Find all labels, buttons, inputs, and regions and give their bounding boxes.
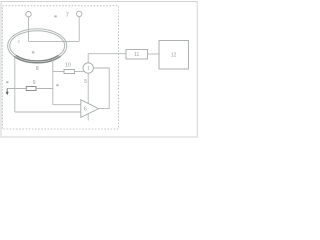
svg-text:6: 6 — [84, 107, 87, 113]
amplifier 6 — [81, 100, 99, 118]
mark near label 7 — [54, 15, 57, 17]
resistor 10 — [64, 70, 75, 74]
svg-text:12: 12 — [171, 52, 177, 58]
wire block 11 to block 12 — [148, 53, 160, 55]
svg-text:4: 4 — [17, 39, 20, 44]
mark right of cell wire — [56, 84, 59, 86]
cell 8 left side wire — [14, 57, 16, 112]
coil 4 darker bottom arc outer — [14, 56, 60, 62]
coil 4 darker bottom arc inner — [16, 55, 58, 61]
wire from mixer top corner to block 11 — [88, 53, 126, 55]
block 11 — [126, 50, 148, 60]
resistor 9 — [26, 87, 36, 91]
svg-text:9: 9 — [33, 80, 36, 86]
svg-text:5: 5 — [84, 79, 87, 85]
wire left of resistor 10 — [53, 71, 64, 73]
svg-text:10: 10 — [65, 62, 71, 68]
cell 8 right side wire — [52, 60, 54, 104]
block 12 — [159, 41, 189, 70]
wire bar between terminals — [29, 40, 80, 42]
wire T2 down — [78, 17, 80, 42]
input arrow — [6, 89, 8, 93]
wire right of resistor 10 — [75, 71, 86, 73]
mark inside coil — [32, 51, 35, 53]
wire to amp upper input — [53, 104, 81, 106]
mixer 5 — [83, 63, 93, 73]
coil 4 outer ellipse — [8, 29, 67, 63]
svg-text:8: 8 — [36, 66, 39, 72]
bottom bus wire to amp lower input — [15, 111, 81, 113]
dashed enclosure box — [2, 6, 118, 129]
wire T1 down — [28, 17, 30, 42]
coil 4 inner ellipse — [10, 31, 65, 61]
svg-text:11: 11 — [134, 52, 139, 58]
wire mixer output right and down to amp tip — [94, 68, 109, 109]
outer frame — [1, 2, 197, 138]
long vertical through mixer and amp — [87, 54, 89, 121]
terminal T2 — [77, 11, 82, 16]
mark near input arrow — [6, 81, 9, 83]
svg-text:7: 7 — [66, 13, 69, 19]
wire right of resistor 9 — [36, 88, 53, 90]
mixer center tick — [87, 66, 89, 71]
wire left of resistor 9 — [7, 88, 26, 90]
terminal T1 — [26, 12, 31, 17]
